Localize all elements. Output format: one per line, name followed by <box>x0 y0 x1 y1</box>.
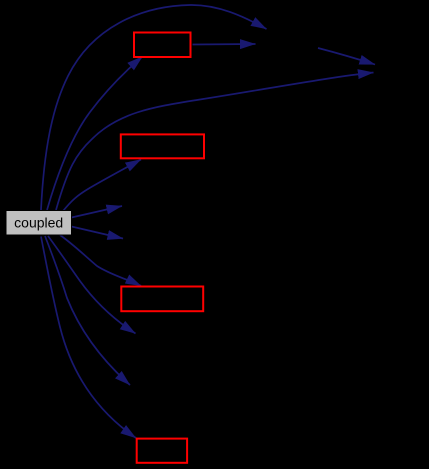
wire coupled->box4 <box>41 237 136 439</box>
node box4 (red, truncated) <box>137 439 187 463</box>
wire box1->nodeA <box>193 43 256 46</box>
wire coupled->nodeA top arc <box>41 5 267 210</box>
wire coupled->nodeB long arc <box>56 73 374 211</box>
wire coupled->box1 <box>47 57 143 211</box>
node box1 (red, truncated) <box>134 33 191 58</box>
wire coupled->nodeE <box>48 236 136 334</box>
node coupled <box>6 211 72 236</box>
wire coupled->box2 <box>63 160 141 212</box>
wire coupled->nodeF <box>45 236 130 385</box>
node box2 (red, truncated) <box>121 134 204 158</box>
svg-text:coupled: coupled <box>14 215 63 231</box>
wire coupled->nodeC short arrow <box>72 206 123 218</box>
wire coupled->nodeD short arrow <box>72 227 124 239</box>
node box3 (red, truncated) <box>121 287 203 312</box>
wire coupled->box3 <box>60 235 141 286</box>
wire nodeA->nodeB <box>318 48 375 65</box>
